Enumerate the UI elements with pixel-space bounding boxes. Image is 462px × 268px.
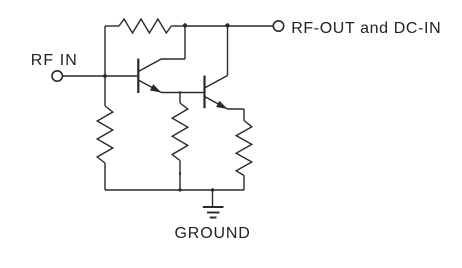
wire: node D down to resistor R2 xyxy=(179,93,181,104)
wire: resistor R4 down to bottom rail corner xyxy=(243,176,245,191)
wire: Q1 collector up to node B xyxy=(184,26,186,59)
output terminal RF-OUT and DC-IN xyxy=(273,21,283,31)
wire: resistor R2 to bottom rail xyxy=(179,161,181,191)
transistor Q1 emitter lead xyxy=(138,80,161,93)
small junction mark on R2 lower lead xyxy=(179,172,181,174)
wire: node A down to resistor R1 xyxy=(104,76,106,106)
resistor R4 (right, emitter) xyxy=(236,121,252,176)
transistor Q1 base bar xyxy=(137,59,139,94)
wire: top rail corner to feedback resistor R3 xyxy=(105,25,119,27)
svg-text:GROUND: GROUND xyxy=(175,225,251,242)
wire: corner down to resistor R4 xyxy=(243,109,245,121)
wire: RF IN terminal to node A xyxy=(63,75,139,77)
transistor Q1 collector lead xyxy=(138,59,185,72)
node F (ground junction) xyxy=(211,188,214,191)
transistor Q1 emitter arrow xyxy=(150,84,161,92)
ground stem xyxy=(212,190,214,207)
resistor R2 (middle bias) xyxy=(172,103,188,161)
input terminal RF IN xyxy=(52,71,62,81)
node C (Q2 collector / top rail junction) xyxy=(225,23,229,27)
wire: Q2 collector up to node C xyxy=(227,26,229,76)
wire: node B to node C (top rail) xyxy=(185,25,228,27)
ground bar 2 xyxy=(207,212,220,214)
node D (emitter bus / R2 junction) xyxy=(179,91,181,93)
transistor Q2 collector lead xyxy=(205,76,228,89)
wire: Q2 emitter to resistor R4 corner xyxy=(228,108,245,110)
wire: bottom rail xyxy=(105,189,244,191)
svg-text:RF IN: RF IN xyxy=(31,52,78,69)
node A (input junction) xyxy=(103,74,107,78)
ground bar 3 xyxy=(210,217,217,219)
wire: node C to output terminal xyxy=(228,25,274,27)
svg-text:RF-OUT and DC-IN: RF-OUT and DC-IN xyxy=(291,20,441,37)
wire: resistor R1 down to bottom rail corner xyxy=(104,163,106,190)
wire: left branch vertical, top rail corner down to node A xyxy=(104,26,106,76)
transistor Q2 emitter arrow xyxy=(216,101,227,109)
transistor Q2 base bar xyxy=(203,76,205,109)
resistor R1 (left, input bias) xyxy=(97,106,113,163)
node E (R2 / bottom rail junction) xyxy=(178,188,181,191)
wire: Q1 emitter to Q2 base (through node D) xyxy=(161,92,204,94)
wire: feedback resistor to node B xyxy=(171,25,185,27)
node B (Q1 collector / top rail junction) xyxy=(183,23,187,27)
transistor Q2 emitter lead xyxy=(205,97,228,110)
ground bar 1 xyxy=(203,206,224,208)
resistor R3 (feedback, top) xyxy=(119,19,171,33)
